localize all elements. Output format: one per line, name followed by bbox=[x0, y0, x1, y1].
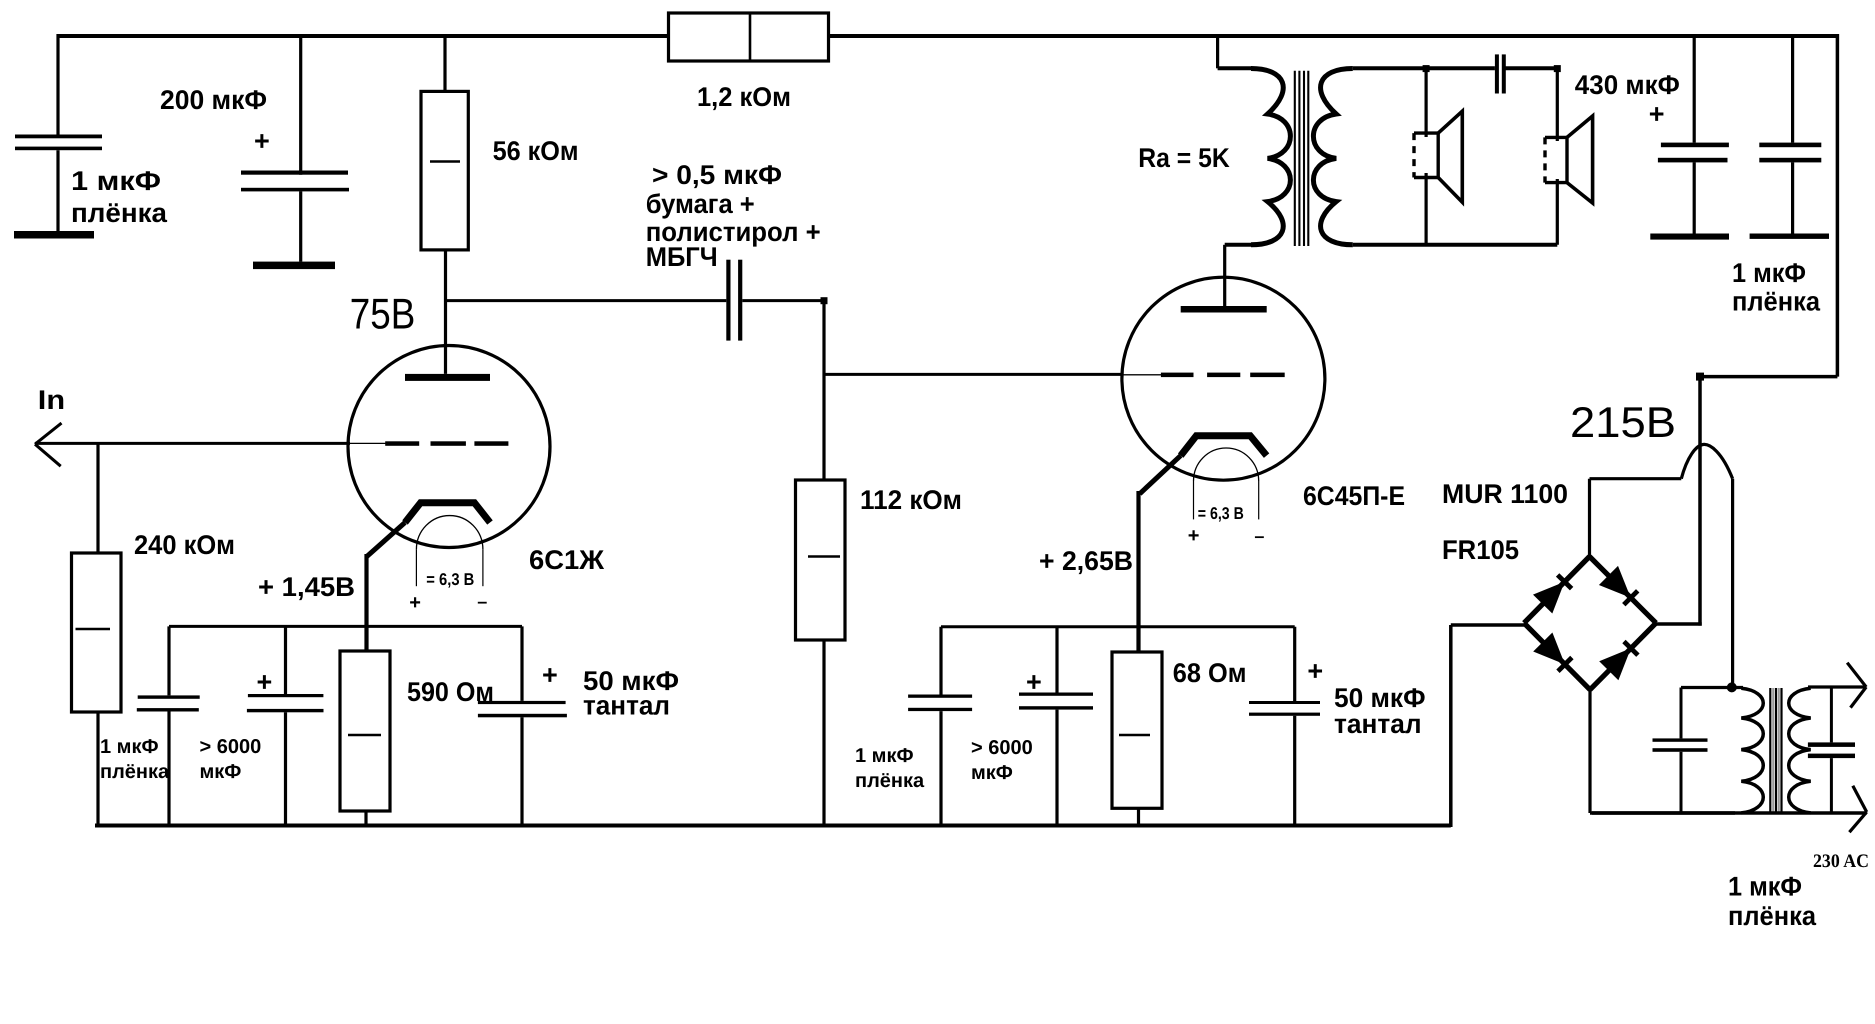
svg-text:6С1Ж: 6С1Ж bbox=[529, 545, 605, 575]
svg-text:МБГЧ: МБГЧ bbox=[646, 242, 718, 272]
svg-text:68 Ом: 68 Ом bbox=[1173, 658, 1247, 688]
svg-text:75В: 75В bbox=[350, 291, 416, 339]
svg-text:1 мкФ: 1 мкФ bbox=[855, 745, 914, 767]
svg-text:+ 1,45В: + 1,45В bbox=[258, 572, 355, 602]
svg-text:FR105: FR105 bbox=[1442, 535, 1519, 565]
svg-text:= 6,3 В: = 6,3 В bbox=[426, 570, 474, 589]
svg-text:плёнка: плёнка bbox=[1732, 287, 1821, 317]
svg-text:тантал: тантал bbox=[1334, 709, 1422, 739]
svg-text:590 Ом: 590 Ом bbox=[407, 677, 494, 707]
svg-text:> 6000: > 6000 bbox=[971, 737, 1033, 759]
svg-text:> 0,5 мкФ: > 0,5 мкФ bbox=[652, 160, 782, 190]
svg-text:6С45П-Е: 6С45П-Е bbox=[1303, 481, 1405, 511]
svg-text:1 мкФ: 1 мкФ bbox=[100, 736, 159, 758]
svg-text:56 кОм: 56 кОм bbox=[493, 136, 579, 166]
svg-text:> 6000: > 6000 bbox=[200, 736, 262, 758]
svg-text:+: + bbox=[542, 660, 558, 690]
svg-text:1 мкФ: 1 мкФ bbox=[1728, 872, 1802, 902]
svg-text:–: – bbox=[1254, 526, 1264, 546]
svg-text:+: + bbox=[1026, 667, 1042, 697]
svg-text:плёнка: плёнка bbox=[1728, 901, 1817, 931]
svg-text:плёнка: плёнка bbox=[71, 198, 168, 228]
svg-text:+: + bbox=[1649, 99, 1665, 129]
svg-text:плёнка: плёнка bbox=[855, 770, 925, 792]
svg-text:–: – bbox=[477, 592, 487, 612]
svg-text:бумага +: бумага + bbox=[646, 189, 755, 219]
svg-text:плёнка: плёнка bbox=[100, 761, 170, 783]
svg-text:MUR 1100: MUR 1100 bbox=[1442, 479, 1568, 509]
svg-text:215В: 215В bbox=[1570, 399, 1676, 447]
svg-text:+: + bbox=[409, 592, 421, 614]
svg-text:= 6,3 В: = 6,3 В bbox=[1198, 504, 1244, 523]
svg-text:200 мкФ: 200 мкФ bbox=[160, 85, 267, 115]
svg-text:мкФ: мкФ bbox=[971, 762, 1013, 784]
svg-text:мкФ: мкФ bbox=[200, 761, 242, 783]
svg-text:тантал: тантал bbox=[583, 691, 670, 721]
svg-text:+ 2,65В: + 2,65В bbox=[1039, 546, 1133, 576]
svg-text:+: + bbox=[1188, 525, 1200, 547]
svg-text:240 кОм: 240 кОм bbox=[134, 530, 235, 560]
svg-text:+: + bbox=[257, 667, 273, 697]
svg-text:230 AC: 230 AC bbox=[1813, 851, 1869, 872]
svg-text:In: In bbox=[38, 385, 65, 415]
svg-text:112 кОм: 112 кОм bbox=[860, 485, 962, 515]
svg-text:1 мкФ: 1 мкФ bbox=[71, 166, 161, 196]
svg-text:430 мкФ: 430 мкФ bbox=[1575, 70, 1680, 100]
svg-text:+: + bbox=[254, 126, 270, 156]
svg-text:1 мкФ: 1 мкФ bbox=[1732, 258, 1806, 288]
svg-text:1,2 кОм: 1,2 кОм bbox=[697, 82, 791, 112]
svg-text:Ra = 5K: Ra = 5K bbox=[1138, 143, 1230, 173]
svg-text:+: + bbox=[1307, 656, 1323, 686]
